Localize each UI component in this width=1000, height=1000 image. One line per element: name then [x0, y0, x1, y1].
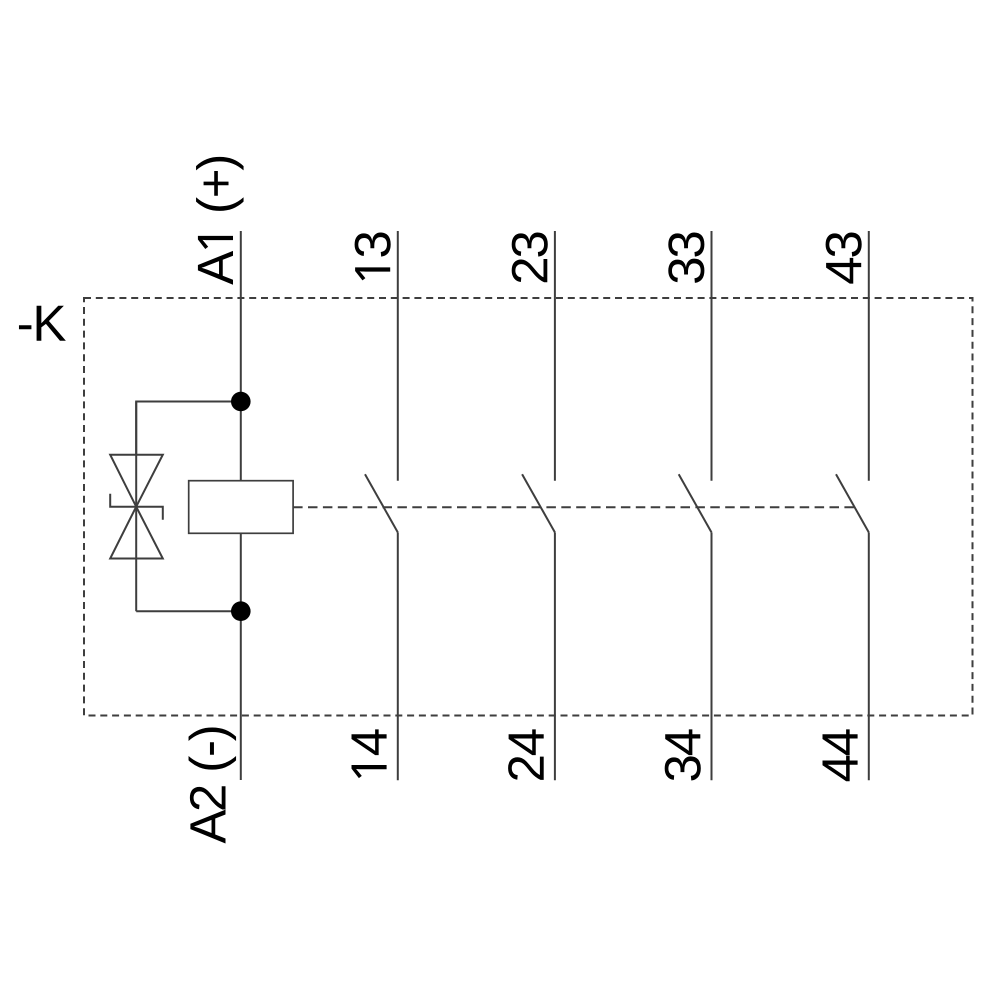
device outline -K (dashed boundary box)	[84, 298, 973, 716]
wire: terminal 33 upper lead	[711, 231, 713, 481]
mechanical linkage (dashed actuator line from coil to contacts)	[293, 506, 855, 508]
pin label 14	[352, 729, 387, 778]
wire: terminal 44 lower lead	[868, 532, 870, 780]
junction node: coil / suppressor top	[231, 392, 251, 412]
suppressor module (bidirectional transient suppressor across coil)	[110, 402, 163, 612]
coil K (contactor operating coil)	[189, 481, 293, 534]
wire: terminal 13 upper lead	[397, 231, 399, 481]
contact blade 23-24 (NO contact)	[522, 474, 555, 532]
reference designator label -K	[19, 306, 66, 341]
pin label 13	[355, 232, 391, 280]
pin label 33	[668, 232, 704, 282]
wire: suppressor top branch	[136, 402, 241, 455]
wire: coil down to A2 terminal	[240, 533, 242, 780]
contact blade 13-14 (NO contact)	[365, 474, 398, 532]
wire: suppressor bottom branch	[136, 610, 241, 612]
terminal label A1 (+)	[196, 157, 244, 285]
contact blade 33-34 (NO contact)	[679, 474, 712, 532]
wire: terminal 43 upper lead	[868, 231, 870, 481]
pin label 44	[823, 729, 858, 781]
pin label 24	[508, 729, 544, 780]
junction node: coil / suppressor bottom	[231, 601, 251, 621]
pin label 34	[665, 729, 701, 780]
terminal label A2 (-)	[189, 727, 237, 843]
wire: A1 terminal down to coil	[240, 231, 242, 481]
wire: terminal 24 lower lead	[554, 532, 556, 780]
contact blade 43-44 (NO contact)	[836, 474, 869, 532]
wire: terminal 14 lower lead	[397, 532, 399, 780]
pin label 43	[826, 232, 862, 283]
wire: terminal 23 upper lead	[554, 231, 556, 481]
wire: terminal 34 lower lead	[711, 532, 713, 780]
pin label 23	[512, 232, 548, 282]
